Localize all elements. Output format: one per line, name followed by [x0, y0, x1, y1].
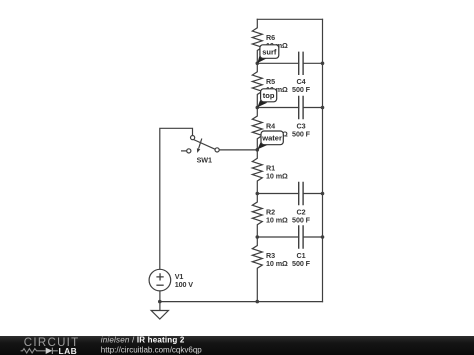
junction node R4/R1/SW1	[255, 148, 259, 152]
junction V1/ground	[158, 300, 162, 304]
capacitor C3	[257, 97, 322, 119]
voltage source V1	[149, 269, 171, 291]
node flag surf	[257, 45, 278, 63]
footer bar	[0, 336, 474, 355]
junction node R5/R4/C3	[255, 106, 259, 110]
svg-text:500 F: 500 F	[292, 215, 311, 224]
junction node R6/R5/C4	[255, 62, 259, 66]
junction R3 bottom	[255, 300, 259, 304]
capacitor C2	[257, 183, 322, 205]
junction C2 right	[321, 192, 325, 196]
switch SW1	[181, 136, 219, 153]
svg-text:SW1: SW1	[197, 155, 212, 164]
svg-text:500 F: 500 F	[292, 259, 311, 268]
resistor R3	[252, 237, 262, 302]
logo diode	[46, 348, 58, 354]
svg-text:10 mΩ: 10 mΩ	[266, 172, 288, 181]
junction node R2/R3/C1	[255, 235, 259, 239]
resistor R6	[252, 19, 262, 63]
junction node R1/R2/C2	[255, 192, 259, 196]
svg-text:http://circuitlab.com/cqkv6qp: http://circuitlab.com/cqkv6qp	[101, 346, 202, 355]
svg-text:top: top	[263, 91, 275, 100]
wire right column	[322, 19, 324, 301]
resistor R1	[252, 150, 262, 194]
resistor R4	[252, 108, 262, 150]
junction C1 right	[321, 235, 325, 239]
svg-text:surf: surf	[262, 47, 277, 56]
svg-text:10 mΩ: 10 mΩ	[266, 215, 288, 224]
capacitor C1	[257, 226, 322, 248]
wire V1 bottom lead	[159, 291, 161, 302]
junction C4 right	[321, 62, 325, 66]
junction C3 right	[321, 106, 325, 110]
wire top rung	[257, 18, 322, 20]
resistor R5	[252, 63, 262, 107]
capacitor C4	[257, 52, 322, 74]
ground	[151, 302, 168, 319]
logo resistor zigzag	[21, 349, 46, 353]
svg-text:LAB: LAB	[59, 346, 78, 355]
svg-text:10 mΩ: 10 mΩ	[266, 259, 288, 268]
svg-text:water: water	[261, 134, 282, 143]
svg-text:100 V: 100 V	[175, 280, 194, 289]
wire switch to node	[219, 149, 257, 151]
wire left column top (switch to corner)	[160, 128, 193, 268]
resistor R2	[252, 194, 262, 238]
wire bottom	[160, 301, 323, 303]
svg-text:500 F: 500 F	[292, 85, 311, 94]
svg-text:inielsen / IR heating 2: inielsen / IR heating 2	[101, 336, 185, 345]
svg-text:500 F: 500 F	[292, 129, 311, 138]
node flag water	[257, 131, 283, 149]
node flag top	[257, 89, 276, 107]
